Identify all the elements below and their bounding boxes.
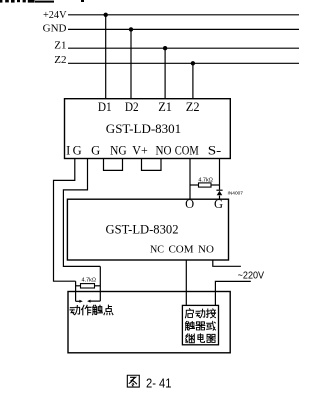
svg-text:NO: NO bbox=[156, 144, 172, 158]
svg-text:D2: D2 bbox=[125, 99, 139, 114]
svg-text:NG: NG bbox=[110, 144, 127, 158]
svg-text:Z1: Z1 bbox=[158, 99, 172, 114]
svg-text:G: G bbox=[214, 197, 223, 211]
svg-text:NO: NO bbox=[198, 243, 214, 255]
svg-text:Z2: Z2 bbox=[186, 99, 200, 114]
svg-text:I: I bbox=[66, 144, 70, 158]
svg-text:O: O bbox=[185, 197, 194, 211]
svg-text:4.7kΩ: 4.7kΩ bbox=[198, 177, 213, 183]
svg-text:COM: COM bbox=[175, 144, 199, 158]
svg-text:Z1: Z1 bbox=[54, 40, 66, 52]
svg-text:NC: NC bbox=[150, 243, 164, 255]
svg-text:IN4007: IN4007 bbox=[228, 191, 244, 197]
svg-text:COM: COM bbox=[168, 243, 193, 255]
svg-text:GND: GND bbox=[43, 23, 67, 35]
svg-text:G: G bbox=[73, 144, 82, 158]
svg-text:4.7kΩ: 4.7kΩ bbox=[82, 278, 97, 284]
svg-text:Z2: Z2 bbox=[54, 54, 66, 66]
svg-text:GST-LD-8302: GST-LD-8302 bbox=[106, 222, 179, 237]
svg-text:2- 41: 2- 41 bbox=[146, 376, 172, 390]
svg-text:+24V: +24V bbox=[43, 9, 67, 21]
svg-text:~220V: ~220V bbox=[238, 271, 265, 282]
svg-text:V+: V+ bbox=[132, 144, 148, 158]
svg-text:D1: D1 bbox=[98, 99, 112, 114]
svg-text:S-: S- bbox=[208, 144, 222, 158]
svg-text:G: G bbox=[91, 144, 100, 158]
svg-text:GST-LD-8301: GST-LD-8301 bbox=[106, 121, 181, 136]
